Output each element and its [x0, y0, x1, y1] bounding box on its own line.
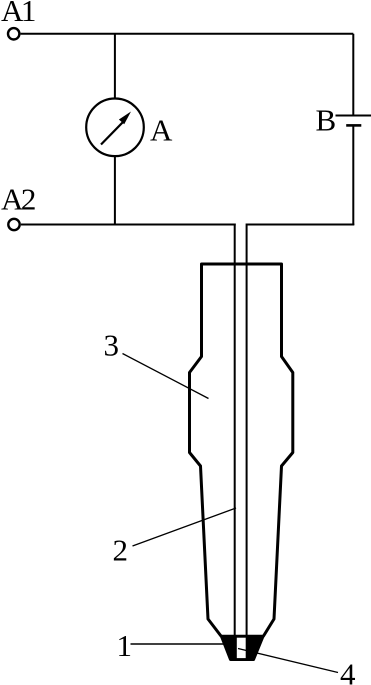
terminal A1: [8, 28, 19, 39]
lead wire right: [246, 224, 248, 651]
svg-text:A1: A1: [1, 0, 35, 28]
pointer line 3: [123, 354, 209, 399]
wire right vertical upper: [352, 34, 354, 116]
wire ammeter vertical upper: [114, 34, 116, 99]
wire right vertical lower: [352, 125, 354, 225]
svg-text:A2: A2: [1, 182, 35, 217]
wire top horizontal: [21, 33, 354, 35]
wire ammeter vertical lower: [114, 156, 116, 225]
probe body (3): [190, 264, 293, 636]
electrode slot (4): [237, 638, 246, 658]
pointer line 1: [131, 643, 225, 645]
svg-text:4: 4: [340, 657, 356, 685]
terminal A2: [8, 219, 19, 230]
pointer line 4: [238, 649, 338, 673]
svg-text:2: 2: [113, 533, 129, 568]
ammeter U1: [86, 99, 144, 157]
svg-text:B: B: [316, 103, 337, 138]
wire bottom left horizontal: [21, 224, 236, 226]
svg-text:1: 1: [117, 628, 133, 663]
svg-text:3: 3: [104, 328, 120, 363]
pointer line 2: [133, 508, 237, 546]
battery B: [336, 116, 371, 126]
wire bottom right horizontal: [246, 224, 354, 226]
tip (1) filled: [222, 636, 264, 659]
svg-text:A: A: [150, 113, 173, 148]
lead wire left (2): [234, 224, 236, 651]
